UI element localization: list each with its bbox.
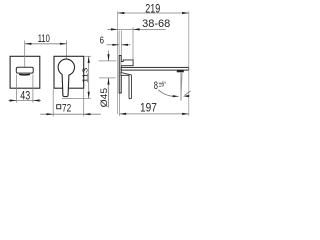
113 extension bottom — [62, 97, 91, 99]
svg-text:197: 197 — [140, 103, 157, 115]
dimension line 6 right part — [121, 44, 130, 46]
centerline extension left square (110 dim) — [24, 40, 26, 67]
dimension line square-72 — [40, 113, 101, 115]
arrow 197 right — [182, 113, 189, 115]
arrow 219 left — [118, 12, 125, 14]
arrow 219 right — [182, 12, 189, 14]
angle leader arrow (pointing right at stream line) — [173, 95, 180, 97]
svg-text:113: 113 — [81, 68, 90, 83]
6 extension right (plate right face) — [120, 31, 122, 56]
aerator slit (dark bar under slot) — [20, 74, 30, 76]
dimension line 38-68 — [107, 28, 165, 30]
diameter-45 extension top — [99, 60, 117, 62]
diameter-45 extension bottom — [99, 77, 116, 79]
right long extension line (spout tip) — [188, 11, 190, 116]
side view: wall plate (edge-on) — [119, 56, 121, 94]
svg-text:110: 110 — [38, 33, 50, 45]
angle right arrow (pointing left at stream line) — [183, 95, 189, 97]
front view: left escutcheon square (spout plate) — [10, 56, 40, 88]
water stream reference line (vertical) — [180, 73, 182, 101]
svg-text:38-68: 38-68 — [142, 18, 170, 30]
dimension line 43 — [8, 100, 41, 102]
svg-text:6: 6 — [100, 36, 105, 47]
angle right tail line — [185, 91, 191, 95]
svg-text:Ø45: Ø45 — [99, 88, 109, 108]
side view: wall reference line — [117, 11, 119, 114]
arrow 43 right (outside) — [33, 99, 40, 101]
centerline extension handle (110 dim) — [66, 40, 68, 59]
square-72 extension left — [52, 89, 54, 117]
spout outlet slot (front) — [16, 67, 33, 73]
water stream angled line — [181, 73, 182, 97]
38-68 extension left (block face) — [132, 27, 134, 60]
43 extension left — [15, 75, 17, 103]
43 extension right — [32, 75, 34, 103]
angle leader arc — [158, 90, 175, 97]
arrow 6 right (outside) — [121, 44, 128, 46]
arrow 38-68 left — [111, 28, 118, 30]
arrow 110 right — [60, 43, 67, 45]
arrow diameter-45 bottom (outside pointing up) — [107, 78, 109, 85]
dimension line diameter-45 — [108, 51, 110, 61]
svg-text:8: 8 — [154, 80, 158, 92]
arrow 72 left (outside) — [47, 113, 54, 115]
arrow 38-68 right (outside at block face) — [133, 28, 140, 30]
side view: handle lever (wedge + grip) — [121, 72, 131, 98]
arrow diameter-45 top (outside pointing down) — [107, 54, 109, 61]
113 extension top — [84, 55, 91, 57]
side view: spout base block — [121, 60, 133, 66]
197 left extension (below plate) — [119, 94, 121, 117]
dimension line 6 left part — [107, 44, 120, 46]
label square symbol — [57, 105, 61, 109]
arrow 197 left — [120, 113, 127, 115]
svg-text:±6°: ±6° — [159, 79, 167, 88]
side view: spout bar — [121, 67, 188, 70]
arrow 72 right (outside) — [84, 113, 91, 115]
dimension line 110 — [25, 43, 67, 45]
arrow 113 top — [88, 56, 90, 63]
svg-text:219: 219 — [145, 2, 160, 16]
svg-text:43: 43 — [20, 89, 30, 103]
arrow 113 bottom — [88, 92, 90, 99]
dimension line 219 — [118, 12, 189, 14]
svg-text:72: 72 — [62, 103, 71, 115]
square-72 extension right — [83, 89, 85, 117]
dimension line 197 — [120, 113, 189, 115]
handle lever keyhole outline (front) — [58, 59, 74, 96]
front view: right escutcheon square (handle plate) — [54, 56, 84, 88]
dimension line 113 — [88, 56, 90, 98]
side view: aerator at spout tip — [177, 70, 184, 72]
6 extension left (plate left face) — [118, 31, 120, 56]
arrow 6 left (outside) — [112, 44, 119, 46]
arrow 43 left (outside) — [10, 99, 17, 101]
arrow 110 left — [25, 43, 32, 45]
